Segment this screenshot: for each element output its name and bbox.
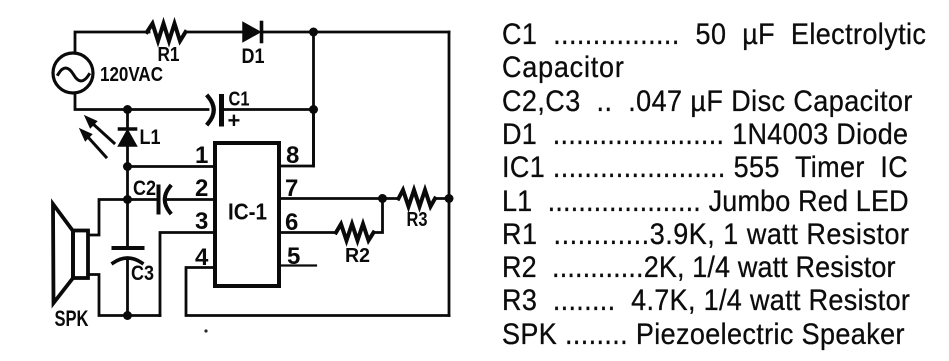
svg-text:R3: R3 <box>407 209 428 231</box>
wire top middle <box>186 31 244 34</box>
speaker SPK <box>53 204 88 303</box>
wire pin 6 <box>279 231 336 234</box>
wire C2 node to speaker top <box>88 200 128 236</box>
node top junction <box>309 28 318 37</box>
svg-text:L1: L1 <box>140 126 161 149</box>
capacitor C3 <box>113 248 143 263</box>
wire top left <box>75 32 149 53</box>
IC U1 <box>215 143 279 286</box>
wire AC bottom <box>75 93 208 110</box>
wire R3 right <box>435 197 449 200</box>
wire C3 bottom <box>126 260 129 316</box>
node C1 junction <box>309 105 318 114</box>
speck (scan mark) <box>204 329 207 332</box>
svg-text:C2: C2 <box>133 177 156 200</box>
svg-text:R2: R2 <box>345 245 370 267</box>
svg-text:SPK: SPK <box>55 306 89 331</box>
node C3 bottom junction <box>123 311 132 320</box>
resistor R1 <box>147 24 186 42</box>
svg-text:+: + <box>228 108 241 133</box>
wire pin 1 <box>128 165 215 168</box>
svg-text:R1: R1 <box>158 44 180 66</box>
wire C3 top <box>126 200 129 249</box>
LED arrows <box>80 116 114 157</box>
capacitor C1 <box>208 97 222 125</box>
svg-text:2: 2 <box>195 175 208 202</box>
wire speaker bottom <box>88 275 160 316</box>
wire pin 7 <box>279 197 399 200</box>
node AC-LED junction <box>123 105 132 114</box>
AC source V1 <box>53 53 93 93</box>
wire pin3 vertical <box>160 233 214 316</box>
wire LED top <box>126 110 129 130</box>
resistor R3 <box>399 190 436 207</box>
wire right edge <box>448 32 451 316</box>
svg-text:3: 3 <box>195 208 208 235</box>
wire top right <box>262 31 450 34</box>
node R3 right junction <box>445 194 454 203</box>
node C2 junction <box>123 195 132 204</box>
svg-text:1: 1 <box>195 142 208 169</box>
node pin1 junction <box>123 162 132 171</box>
LED L1 <box>119 129 137 146</box>
svg-text:D1: D1 <box>242 45 265 68</box>
wire pin 8 <box>279 110 314 167</box>
resistor R2 <box>336 224 374 241</box>
node R2R3 junction <box>378 194 387 203</box>
schematic SVG <box>0 0 480 361</box>
wire vertical D1 node to pin8 <box>312 32 315 166</box>
wire pin 4 <box>186 268 449 316</box>
wire LED to pin1 node <box>126 146 129 200</box>
svg-text:120VAC: 120VAC <box>100 64 163 86</box>
parts list text <box>502 20 926 50</box>
wire R2 to node <box>374 199 383 233</box>
wire C1 to node <box>223 108 314 111</box>
capacitor C2 <box>159 187 171 213</box>
wire pin 2 <box>168 198 214 201</box>
svg-text:IC-1: IC-1 <box>228 199 267 225</box>
wire C2 left <box>128 198 159 201</box>
svg-text:C3: C3 <box>131 262 154 285</box>
wire pin 5 stub <box>279 264 316 266</box>
diode D1 <box>243 23 262 42</box>
